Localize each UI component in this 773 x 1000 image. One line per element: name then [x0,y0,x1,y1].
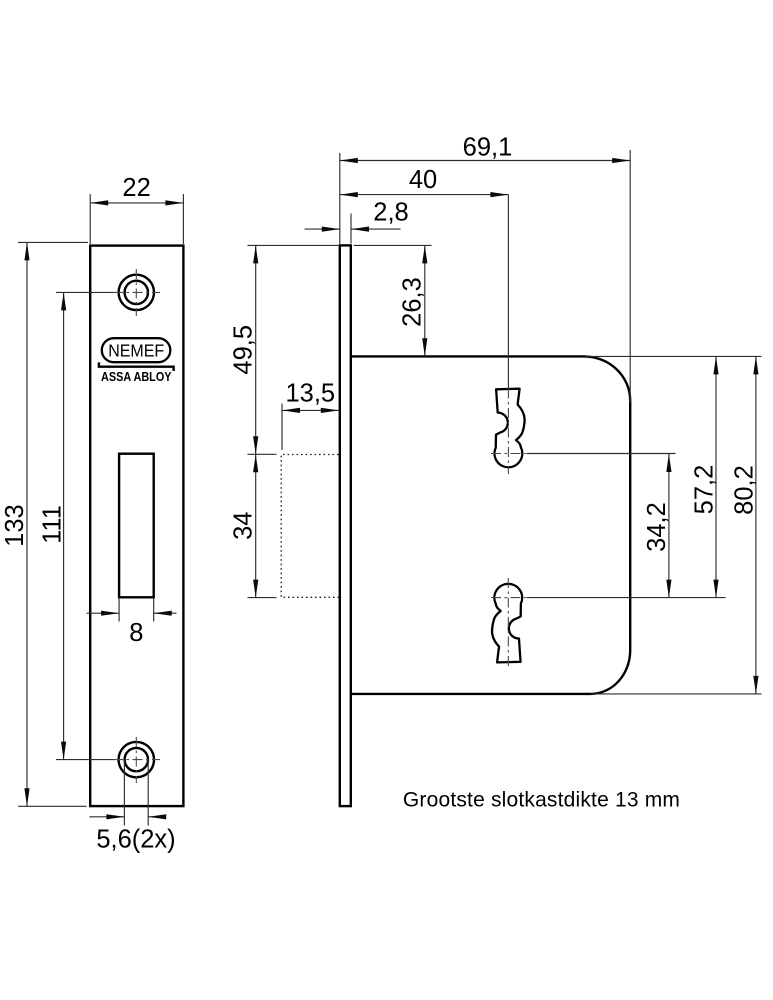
keyhole lower vertical centerline [507,578,509,668]
screw hole bottom inner [125,748,148,771]
dim 34 ext lines [248,453,277,455]
faceplate outline [90,246,183,807]
keyhole upper horizontal centerline [491,453,527,455]
dim 49,5 top ext line [248,244,340,246]
svg-text:NEMEF: NEMEF [108,340,164,360]
svg-text:5,6(2x): 5,6(2x) [96,825,175,853]
dim 69,1 extension lines [339,153,341,245]
svg-text:57,2: 57,2 [690,465,718,515]
keyhole upper vertical centerline [507,389,509,475]
keyhole upper [494,389,524,468]
dim 8 line [87,612,120,614]
svg-text:22: 22 [122,174,150,202]
dim 57,2 line [715,356,717,597]
svg-text:34: 34 [230,512,258,540]
screw hole bottom outer [119,742,154,777]
svg-text:13,5: 13,5 [285,380,335,408]
screw hole top inner [125,281,148,304]
dim 13,5 left ext line [281,404,283,451]
dim 26,3 top ext line [354,244,432,246]
dim 34 line [255,454,257,597]
hidden bolt dotted box [281,455,338,598]
faceplate side (thin plate) [340,245,351,806]
screw hole top outer [119,275,154,310]
logo underline [99,362,174,371]
svg-text:111: 111 [38,505,66,544]
keyhole lower horizontal centerline [491,597,527,599]
svg-text:133: 133 [1,504,29,547]
dim 111 line [63,292,65,759]
ext line 111 top [56,291,113,293]
dim 2,8 lines [305,228,340,230]
dim 34,2 line [668,454,670,598]
dim 49,5 line [255,245,257,454]
svg-text:8: 8 [129,619,143,647]
centerline top hole vertical [135,269,137,316]
svg-text:2,8: 2,8 [373,199,408,227]
svg-text:26,3: 26,3 [398,277,426,327]
dim 133 extension lines [18,241,88,243]
dim 133 line [26,242,28,806]
svg-text:40: 40 [409,166,437,194]
centerline bottom hole horizontal [113,759,160,761]
dim 22 extension lines [89,194,91,244]
svg-text:49,5: 49,5 [230,325,258,375]
keyhole lower [492,584,522,663]
centerline top hole horizontal [113,291,160,293]
dim 26,3 line [424,245,426,356]
ext line case top right [585,355,762,357]
dim 69,1 line [340,160,630,162]
ext line right of upper keyhole [527,453,676,455]
dim 5,6(2x) extension lines [123,760,125,826]
ext line right of lower keyhole [527,597,726,599]
lock case outline [351,356,630,694]
dim 40 line [340,194,509,196]
svg-text:Grootste slotkastdikte 13 mm: Grootste slotkastdikte 13 mm [403,789,680,812]
svg-text:ASSA ABLOY: ASSA ABLOY [101,370,172,384]
ext line 111 bottom [56,759,113,761]
centerline bottom hole vertical [135,737,137,783]
NEMEF logo stadium [102,338,171,362]
ext line case bottom right [591,693,762,695]
svg-text:69,1: 69,1 [463,134,513,162]
dim 13,5 line [282,409,339,411]
dim 80,2 line [755,356,757,694]
dim 8 extension lines [118,598,120,622]
svg-text:34,2: 34,2 [643,502,671,552]
dim 22 line [90,202,183,204]
dim 2,8 right ext tick [350,214,352,244]
slot cutout [119,454,154,598]
keyhole vertical centerline solid above [507,195,509,389]
dim 5,6 line [90,816,125,818]
svg-text:80,2: 80,2 [730,465,758,515]
